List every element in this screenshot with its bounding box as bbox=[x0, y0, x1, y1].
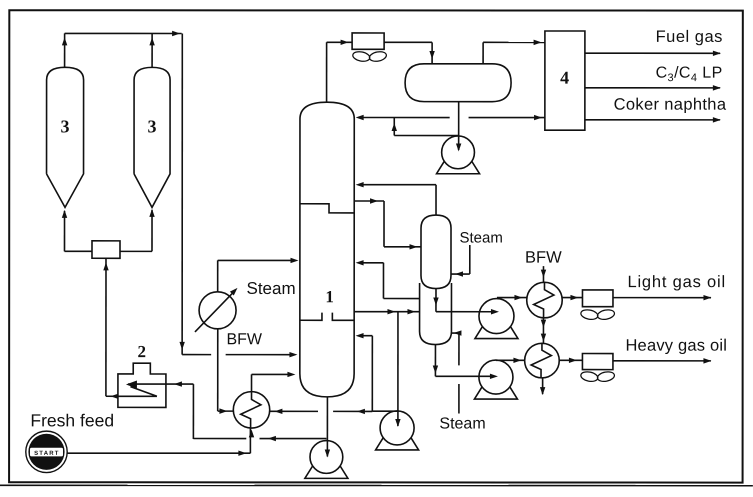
wire BFW outlet bbox=[540, 378, 545, 395]
air cooler (overhead) bbox=[352, 33, 384, 49]
svg-text:3: 3 bbox=[61, 116, 70, 136]
wire right drum overhead bbox=[149, 33, 154, 67]
svg-text:Steam: Steam bbox=[246, 279, 295, 298]
wire quench to exchanger bbox=[270, 409, 373, 414]
fan (heavy cooler) bbox=[580, 370, 615, 382]
label Steam (stripper) bbox=[459, 230, 502, 247]
wire bottoms outlet bbox=[325, 397, 330, 458]
svg-text:Fresh feed: Fresh feed bbox=[30, 410, 114, 430]
steam generator exchanger bbox=[195, 288, 238, 332]
wire quench pump discharge bbox=[372, 410, 397, 412]
label 3 (right drum) bbox=[148, 116, 157, 136]
coke drum 3 (left) bbox=[47, 67, 84, 207]
wire furnace inlet bbox=[166, 381, 194, 439]
wire heavy exchanger outlet bbox=[559, 358, 582, 363]
wire BFW interstage bbox=[541, 318, 546, 343]
wire bottoms to furnace bbox=[193, 436, 326, 441]
wire quench pump suction bbox=[395, 312, 400, 427]
svg-text:START: START bbox=[34, 451, 60, 457]
wire stripper2 bottoms bbox=[433, 345, 498, 380]
label 4 (unit) bbox=[560, 68, 569, 88]
wire steamgen to column bbox=[218, 258, 299, 292]
label 1 (column) bbox=[325, 287, 334, 306]
coke drum 3 (right) bbox=[134, 67, 170, 207]
wire stripper1 bottoms bbox=[433, 289, 499, 315]
START button bbox=[26, 431, 67, 472]
fractionator column 1 bbox=[300, 102, 354, 397]
wire column draw to stripper2 bbox=[354, 309, 419, 314]
valve box (drum switch) bbox=[92, 241, 120, 258]
air cooler (heavy gas oil) bbox=[582, 354, 613, 370]
light gas oil pump bbox=[475, 299, 518, 339]
wire furnace to switch box bbox=[103, 258, 118, 399]
wire quench riser to column bbox=[356, 333, 373, 411]
wire left drum overhead bbox=[62, 33, 67, 67]
column internal chimney tray bbox=[300, 313, 354, 321]
side stripper (lower) bbox=[420, 283, 452, 345]
vapor recovery unit 4 bbox=[545, 31, 585, 130]
wire coker naphtha product bbox=[585, 117, 721, 122]
furnace 2 bbox=[118, 363, 166, 407]
svg-text:2: 2 bbox=[137, 342, 146, 361]
air cooler (light gas oil) bbox=[582, 290, 613, 307]
BFW exchanger (light) bbox=[527, 282, 563, 318]
wire column draw to stripper1 bbox=[354, 198, 421, 249]
svg-text:4: 4 bbox=[560, 68, 569, 88]
wire steam to stripper2 bbox=[451, 330, 461, 413]
wire steamgen BFW down bbox=[218, 329, 234, 414]
label BFW (right) bbox=[525, 249, 562, 267]
svg-text:BFW: BFW bbox=[226, 331, 262, 348]
wire exchanger to column feed bbox=[252, 372, 296, 392]
label Coker naphtha bbox=[614, 96, 727, 114]
wire drum liquid outlet bbox=[456, 102, 461, 152]
wire reflux pump discharge bbox=[392, 118, 459, 136]
svg-text:Steam: Steam bbox=[459, 230, 502, 247]
quench pump bbox=[376, 411, 419, 450]
wire BFW inlet bbox=[541, 266, 546, 282]
wire light gas oil product bbox=[613, 295, 712, 300]
wire right drum feed bbox=[120, 209, 155, 252]
wire C3/C4 product bbox=[585, 85, 721, 90]
wire drum vapor to unit 4 bbox=[483, 40, 545, 64]
label 3 (left drum) bbox=[61, 116, 70, 136]
label Fresh feed bbox=[30, 410, 114, 430]
BFW exchanger (heavy) bbox=[525, 343, 560, 378]
column internal draw tray bbox=[300, 204, 354, 213]
svg-text:BFW: BFW bbox=[525, 249, 562, 267]
wire heavy gas oil product bbox=[613, 358, 712, 363]
furnace coil bbox=[118, 380, 166, 396]
svg-text:3: 3 bbox=[148, 116, 157, 136]
wire column overhead bbox=[327, 40, 353, 103]
label Steam (left) bbox=[246, 279, 295, 298]
svg-text:Fuel gas: Fuel gas bbox=[656, 28, 723, 46]
svg-text:1: 1 bbox=[325, 287, 334, 306]
wire light pump discharge bbox=[497, 295, 527, 300]
label C3/C4 LP bbox=[656, 65, 723, 85]
label Heavy gas oil bbox=[625, 337, 727, 355]
side stripper (upper) bbox=[421, 215, 451, 289]
wire stripper1 overhead bbox=[356, 182, 436, 215]
wire stripper2 overhead bbox=[356, 260, 420, 298]
reflux pump bbox=[437, 136, 480, 174]
svg-text:C3/C4 LP: C3/C4 LP bbox=[656, 65, 723, 85]
svg-text:Steam: Steam bbox=[439, 416, 485, 433]
fan (light cooler) bbox=[580, 308, 615, 320]
fan (overhead cooler) bbox=[352, 50, 387, 62]
svg-text:Heavy gas oil: Heavy gas oil bbox=[625, 337, 727, 355]
wire fuel gas product bbox=[585, 51, 721, 56]
label Fuel gas bbox=[656, 28, 723, 46]
label Steam (bottom) bbox=[439, 416, 485, 433]
label 2 (furnace) bbox=[137, 342, 146, 361]
label Light gas oil bbox=[627, 273, 725, 291]
wire heavy pump discharge bbox=[496, 358, 525, 363]
wire vapor to column bbox=[182, 352, 297, 357]
feed preheat exchanger bbox=[233, 392, 269, 428]
wire light exchanger outlet bbox=[562, 295, 582, 300]
bottom edge line bbox=[0, 484, 753, 486]
heavy gas oil pump bbox=[474, 360, 517, 399]
label BFW (left) bbox=[226, 331, 262, 348]
svg-text:Light gas oil: Light gas oil bbox=[627, 273, 725, 291]
wire cooler to drum bbox=[384, 42, 435, 64]
wire steam to stripper1 bbox=[451, 245, 470, 277]
bottoms pump bbox=[305, 441, 348, 479]
wire vapor downcomer bbox=[179, 33, 185, 354]
svg-text:Coker naphtha: Coker naphtha bbox=[614, 96, 727, 114]
wire drum overhead header bbox=[65, 31, 182, 36]
wire reflux line bbox=[356, 115, 545, 120]
wire left drum feed bbox=[62, 210, 92, 252]
overhead drum bbox=[405, 64, 511, 102]
wire fresh feed line bbox=[67, 428, 254, 456]
